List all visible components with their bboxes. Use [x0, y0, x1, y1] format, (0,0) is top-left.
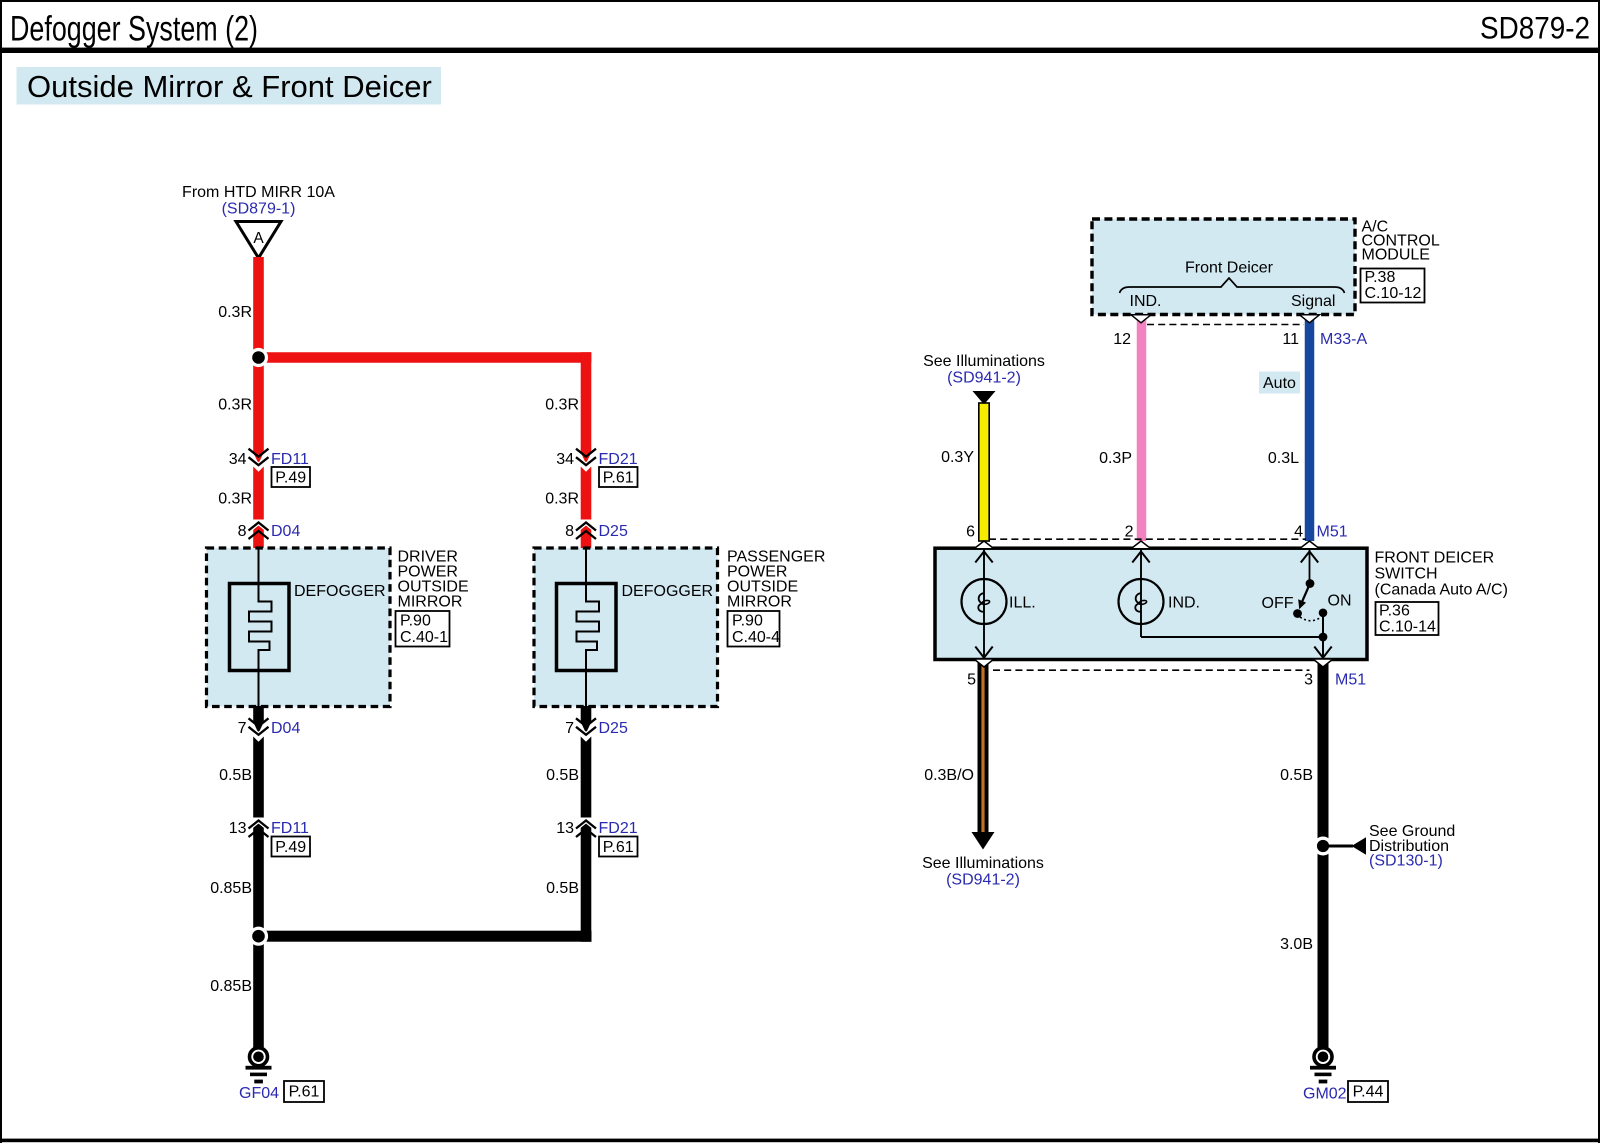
svg-text:P.49: P.49 — [275, 839, 306, 856]
svg-text:P.90: P.90 — [732, 613, 763, 630]
svg-text:P.38: P.38 — [1365, 269, 1396, 286]
junction dot on black wire — [249, 927, 268, 946]
svg-text:MODULE: MODULE — [1362, 247, 1430, 264]
component name: passenger power outside mirror — [727, 549, 825, 611]
defogger element (passenger) — [557, 549, 617, 706]
A/C control module box — [1092, 219, 1355, 315]
svg-text:3: 3 — [1304, 672, 1313, 689]
wire 0.5B between D04 and FD11 — [253, 737, 264, 818]
svg-text:0.3L: 0.3L — [1268, 450, 1299, 467]
svg-text:0.5B: 0.5B — [1280, 767, 1313, 784]
ground GM02 — [1310, 1048, 1336, 1084]
svg-text:0.3R: 0.3R — [545, 491, 579, 508]
svg-text:34: 34 — [229, 451, 247, 468]
lamp ILL. — [962, 549, 1007, 659]
svg-text:C.10-12: C.10-12 — [1365, 285, 1422, 302]
svg-text:GM02: GM02 — [1303, 1086, 1347, 1103]
svg-text:D25: D25 — [599, 720, 628, 737]
wire 0.3R into passenger mirror — [581, 524, 592, 550]
lamp IND. — [1119, 549, 1164, 637]
connector FD11 pin 34 chevrons — [249, 457, 269, 465]
junction dot on red wire — [249, 348, 268, 367]
section header: Outside Mirror & Front Deicer — [17, 67, 442, 105]
wire 0.3P from module pin 12 to switch pin 2 — [1137, 319, 1147, 541]
connector M51 dashed line (bottom) — [993, 669, 1310, 671]
svg-text:P.44: P.44 — [1353, 1084, 1384, 1101]
reference box P.90 C.40-1 — [396, 611, 450, 647]
svg-text:(Canada Auto A/C): (Canada Auto A/C) — [1375, 582, 1508, 599]
connector D04 pin 8 chevrons — [249, 523, 269, 531]
connector D25 pin 7 chevrons — [576, 727, 596, 735]
svg-text:13: 13 — [556, 820, 574, 837]
wire 0.5B out of driver mirror — [253, 706, 264, 733]
pin marker switch pin 4 — [1300, 541, 1320, 549]
svg-text:GF04: GF04 — [239, 1085, 279, 1102]
svg-text:P.49: P.49 — [275, 470, 306, 487]
pin marker module pin 12 — [1131, 315, 1151, 323]
switch ON contact — [1319, 609, 1328, 618]
svg-text:See Illuminations: See Illuminations — [922, 855, 1044, 872]
svg-text:FD11: FD11 — [271, 451, 309, 468]
net label Auto — [1259, 372, 1300, 394]
svg-text:(SD879-1): (SD879-1) — [222, 201, 296, 218]
node label: See Ground Distribution — [1369, 823, 1455, 870]
svg-text:7: 7 — [565, 720, 574, 737]
pin marker switch pin 5 — [974, 659, 994, 667]
connector D25 pin 8 chevrons — [576, 523, 596, 531]
svg-text:DEFOGGER: DEFOGGER — [622, 583, 714, 600]
svg-text:0.5B: 0.5B — [546, 767, 579, 784]
svg-text:FRONT DEICER: FRONT DEICER — [1375, 550, 1495, 567]
wire 0.5B from FD21 down to merge — [581, 822, 592, 942]
svg-text:P.61: P.61 — [289, 1084, 320, 1101]
svg-text:ILL.: ILL. — [1009, 595, 1036, 612]
svg-text:0.3R: 0.3R — [218, 397, 252, 414]
svg-text:0.3B/O: 0.3B/O — [924, 767, 974, 784]
svg-text:D04: D04 — [271, 720, 300, 737]
wire 0.3R between FD11 and D04 — [253, 467, 264, 520]
svg-text:8: 8 — [238, 523, 247, 540]
svg-text:P.61: P.61 — [603, 839, 634, 856]
svg-text:Front Deicer: Front Deicer — [1185, 260, 1274, 277]
reference box P.90 C.40-4 — [728, 611, 781, 647]
dotted travel arc — [1300, 617, 1321, 621]
connector FD21 pin 13 chevrons — [576, 821, 596, 829]
pin marker switch pin 2 — [1131, 541, 1151, 549]
svg-text:12: 12 — [1113, 331, 1131, 348]
wire 0.5B / 3.0B from switch pin 3 to ground GM02 — [1318, 660, 1329, 1048]
svg-text:2: 2 — [1125, 524, 1134, 541]
pin marker module pin 11 — [1300, 315, 1320, 323]
svg-text:P.36: P.36 — [1379, 603, 1410, 620]
svg-text:Outside Mirror & Front Deicer: Outside Mirror & Front Deicer — [27, 69, 432, 104]
svg-text:(SD130-1): (SD130-1) — [1369, 853, 1443, 870]
svg-text:C.40-4: C.40-4 — [732, 629, 780, 646]
svg-text:Signal: Signal — [1291, 293, 1335, 310]
junction dot to ground distribution — [1314, 837, 1333, 856]
power feed triangle A — [236, 222, 281, 259]
wire 0.3R horizontal branch to passenger side — [259, 352, 592, 363]
passenger power outside mirror box — [534, 548, 718, 707]
svg-text:ON: ON — [1328, 593, 1352, 610]
svg-text:(SD941-2): (SD941-2) — [947, 370, 1021, 387]
svg-text:34: 34 — [556, 451, 574, 468]
svg-text:From HTD MIRR 10A: From HTD MIRR 10A — [182, 184, 335, 201]
component name: A/C control module — [1362, 219, 1440, 264]
wire 0.5B between D25 and FD21 — [581, 737, 592, 818]
svg-text:C.10-14: C.10-14 — [1379, 619, 1436, 636]
svg-text:8: 8 — [565, 523, 574, 540]
svg-text:IND.: IND. — [1168, 595, 1200, 612]
wire junction: passenger ground merge — [259, 931, 592, 942]
svg-text:0.3P: 0.3P — [1099, 450, 1132, 467]
connector D04 pin 7 chevrons — [249, 727, 269, 735]
svg-text:M33-A: M33-A — [1320, 331, 1367, 348]
wire 0.5B out of passenger mirror — [581, 706, 592, 733]
pin marker switch pin 3 — [1313, 659, 1333, 667]
svg-text:7: 7 — [238, 720, 247, 737]
svg-text:MIRROR: MIRROR — [398, 594, 463, 611]
reference box P.36 C.10-14 — [1376, 602, 1439, 636]
svg-text:0.3R: 0.3R — [218, 304, 252, 321]
wire 0.3L from module pin 11 to switch pin 4 — [1305, 319, 1315, 541]
svg-text:3.0B: 3.0B — [1280, 936, 1313, 953]
svg-text:4: 4 — [1294, 524, 1303, 541]
pin marker switch pin 6 — [974, 541, 994, 549]
wire 0.3R from triangle A to junction and FD11 — [253, 257, 264, 464]
feed arrow into 0.3Y wire — [973, 391, 996, 405]
connector M51 dashed line (top) — [989, 538, 1306, 540]
svg-text:0.5B: 0.5B — [219, 767, 252, 784]
svg-text:OFF: OFF — [1262, 595, 1294, 612]
svg-text:FD11: FD11 — [271, 820, 309, 837]
connector M33-A dashed line — [1147, 324, 1304, 326]
wire 0.3R right branch down to FD21 — [581, 352, 592, 464]
switch lever — [1298, 584, 1310, 610]
connector FD11 pin 13 chevrons — [249, 821, 269, 829]
svg-text:P.61: P.61 — [603, 470, 634, 487]
svg-text:0.85B: 0.85B — [210, 978, 252, 995]
svg-text:0.3R: 0.3R — [218, 491, 252, 508]
component name: driver power outside mirror — [398, 549, 469, 611]
svg-text:M51: M51 — [1317, 524, 1348, 541]
svg-text:P.90: P.90 — [400, 613, 431, 630]
driver power outside mirror box — [207, 548, 391, 707]
svg-text:D25: D25 — [599, 523, 628, 540]
svg-text:FD21: FD21 — [599, 820, 638, 837]
svg-text:SWITCH: SWITCH — [1375, 566, 1438, 583]
svg-text:0.5B: 0.5B — [546, 880, 579, 897]
branch arrow to ground distribution — [1323, 837, 1366, 854]
wire 0.3Y from illuminations to switch pin 6 — [979, 403, 989, 541]
svg-text:SD879-2: SD879-2 — [1480, 10, 1590, 46]
wire 0.3R between FD21 and D25 — [581, 467, 592, 520]
svg-text:Defogger System (2): Defogger System (2) — [10, 10, 258, 49]
svg-text:0.3R: 0.3R — [545, 397, 579, 414]
switch OFF contact — [1293, 609, 1302, 618]
svg-text:11: 11 — [1282, 331, 1299, 348]
svg-text:(SD941-2): (SD941-2) — [946, 872, 1020, 889]
svg-text:Auto: Auto — [1263, 375, 1296, 392]
front deicer switch box — [935, 548, 1367, 659]
svg-text:D04: D04 — [271, 523, 300, 540]
switch output line to pin 3 — [1141, 617, 1332, 660]
svg-text:13: 13 — [229, 820, 247, 837]
svg-text:0.3Y: 0.3Y — [941, 449, 974, 466]
feed arrow out of 0.3B/O wire — [972, 832, 995, 850]
reference box P.38 C.10-12 — [1361, 269, 1425, 303]
component name: front deicer switch — [1375, 550, 1508, 599]
svg-text:6: 6 — [966, 524, 975, 541]
brace under Front Deicer — [1120, 278, 1345, 293]
svg-text:M51: M51 — [1335, 672, 1366, 689]
connector FD21 pin 34 chevrons — [576, 457, 596, 465]
svg-text:0.85B: 0.85B — [210, 880, 252, 897]
switch common line from pin 4 — [1301, 549, 1318, 588]
svg-text:IND.: IND. — [1130, 293, 1162, 310]
wire 0.85B from FD11 to ground GF04 — [253, 822, 264, 1048]
svg-text:FD21: FD21 — [599, 451, 638, 468]
svg-text:A: A — [253, 230, 264, 247]
svg-text:DEFOGGER: DEFOGGER — [294, 583, 386, 600]
svg-text:MIRROR: MIRROR — [727, 594, 792, 611]
defogger element (driver) — [230, 549, 290, 706]
svg-text:5: 5 — [967, 672, 976, 689]
ground GF04 — [246, 1048, 272, 1084]
svg-text:See Illuminations: See Illuminations — [923, 353, 1045, 370]
svg-text:C.40-1: C.40-1 — [400, 629, 448, 646]
wire 0.3R into driver mirror — [253, 524, 264, 550]
wire 0.3B/O from switch pin 5 — [978, 660, 989, 833]
